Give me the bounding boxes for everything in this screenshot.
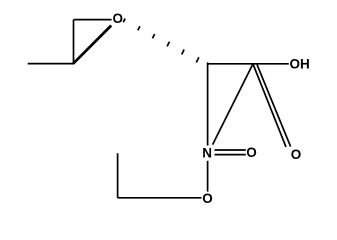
wire ethyl CH2-CH3 vertical bond — [117, 153, 119, 198]
wire ring bond C3-N diagonal — [213, 64, 253, 145]
wire hashed stereo bond O to C — [123, 19, 199, 63]
wire O-CH2 horizontal bond — [118, 197, 202, 199]
wire methyl bond CH3-CH — [28, 63, 74, 65]
svg-text:O: O — [112, 11, 123, 26]
svg-text:OH: OH — [290, 57, 310, 72]
svg-text:N: N — [202, 145, 212, 160]
wire ring bond C2-N vertical — [207, 62, 209, 145]
wire top horizontal bonds C2-C3-OH — [208, 63, 289, 65]
wire epoxide top bond CH2-O — [74, 19, 112, 21]
wire N=O double bond — [215, 150, 246, 155]
wire epoxide left bond CH-CH2 — [73, 20, 75, 64]
svg-text:O: O — [246, 145, 257, 160]
wire carbonyl C3=O double bond — [253, 64, 291, 147]
svg-text:O: O — [291, 147, 302, 162]
wire epoxide bold diagonal bond CH-O — [73, 26, 111, 64]
svg-text:O: O — [202, 191, 213, 206]
wire N-O ester vertical bond — [207, 161, 209, 192]
